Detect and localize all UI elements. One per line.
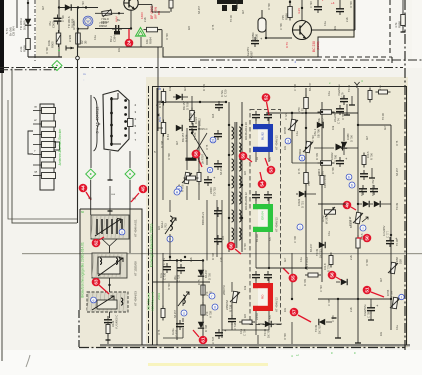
junction dots row: [162, 101, 227, 103]
svg-text:u-g: u-g: [132, 197, 136, 200]
wire x358 bottom: [355, 250, 361, 343]
svg-text:62: 62: [94, 240, 99, 246]
red test point 4-5: [131, 185, 147, 202]
svg-text:L 703: L 703: [164, 223, 168, 230]
svg-text:4n7: 4n7: [366, 135, 369, 140]
svg-text:b: b: [348, 175, 350, 179]
red voltage 4.2V: [285, 8, 301, 48]
svg-text:D 726: D 726: [185, 134, 189, 142]
dashed border top right vertical: [389, 0, 391, 55]
diode D751: [296, 191, 316, 208]
svg-text:0.1u: 0.1u: [296, 131, 299, 136]
dashed border top right horizontal: [285, 57, 392, 63]
wire fork symbol above panel: [354, 82, 359, 88]
green ground triangles: [136, 28, 146, 37]
svg-text:R 75: R 75: [396, 140, 399, 146]
capacitor C74: [333, 105, 344, 124]
svg-text:R70B: R70B: [283, 127, 287, 134]
paper bottom white: [0, 350, 422, 375]
wire x338 bottom: [335, 298, 341, 338]
shield frame green GR.04: [253, 204, 273, 232]
resistor small mid: [362, 151, 374, 168]
resistor R56 pot: [388, 257, 403, 274]
svg-text:0.7V: 0.7V: [285, 42, 289, 48]
svg-text:4n7: 4n7: [380, 277, 383, 282]
svg-text:4.2V: 4.2V: [297, 8, 301, 14]
tiny value labels texture top: [42, 1, 353, 54]
svg-text:R98.5: R98.5: [317, 168, 321, 176]
wire x391 low: [390, 205, 392, 330]
wire red frame out: [222, 282, 269, 330]
capacitor C337: [171, 320, 184, 337]
wire x222 tall: [221, 200, 223, 282]
module panel border: [80, 209, 142, 345]
module 1 label: [134, 219, 138, 237]
svg-text:C 723: C 723: [162, 258, 166, 265]
svg-text:24: 24: [127, 40, 132, 46]
svg-text:C 337: C 337: [175, 329, 179, 337]
svg-text:R 709: R 709: [315, 153, 319, 160]
svg-text:C 723: C 723: [284, 113, 288, 120]
red frame pin stubs: [255, 277, 272, 322]
svg-text:D 705: D 705: [208, 273, 212, 280]
green text column asym2: [157, 292, 161, 300]
resistor R887 right: [394, 0, 406, 32]
svg-text:TD 49: TD 49: [230, 15, 233, 22]
wire x217 vertical: [216, 200, 218, 257]
connector key tab: [54, 142, 60, 150]
resistor R82 vertical: [189, 96, 202, 126]
blue circle 3: [285, 138, 291, 144]
wire y299 right: [318, 298, 392, 300]
diode D901 on y7.5: [65, 4, 71, 10]
red test point 4-9: [343, 201, 356, 210]
wire x110 stub2: [108, 186, 113, 215]
wire x203 bottom: [202, 261, 204, 337]
svg-text:92148+R13 20: 92148+R13 20: [244, 122, 248, 140]
wire x163 vertical: [162, 102, 164, 200]
red test point 5-8 overlay: [192, 150, 201, 159]
svg-text:BA 157: BA 157: [396, 167, 399, 176]
variable coil L704: [178, 292, 189, 306]
svg-text:TD 49: TD 49: [382, 113, 385, 120]
wire y113 stub: [0, 0, 1, 1]
green diamond on separator: [52, 61, 62, 71]
svg-text:C 706: C 706: [62, 15, 65, 22]
svg-text:C 905: C 905: [68, 34, 72, 42]
junction dots network: [291, 111, 323, 164]
svg-text:2.2k: 2.2k: [190, 257, 193, 262]
blue circle bottom left: [209, 293, 215, 299]
svg-text:53: 53: [269, 167, 274, 173]
resistor R79 v: [320, 173, 327, 189]
svg-text:C 720: C 720: [224, 89, 228, 97]
tuner brace: [94, 97, 100, 151]
svg-text:D 708: D 708: [366, 259, 369, 266]
svg-text:C 706: C 706: [293, 84, 297, 91]
potentiometer R70B: [283, 119, 298, 134]
svg-text:11: 11: [211, 138, 215, 142]
svg-text:D 708: D 708: [168, 153, 171, 160]
svg-text:+4.5u: +4.5u: [255, 313, 259, 320]
svg-text:R 75: R 75: [158, 329, 161, 335]
wire x130 below diamond: [129, 180, 131, 253]
red test point 5-1: [363, 286, 384, 297]
resistor R735: [201, 282, 213, 298]
svg-text:AT 4046/12: AT 4046/12: [275, 297, 279, 312]
vertical label right of transformer: [244, 122, 248, 210]
row2 capacitor C726: [189, 123, 208, 140]
wire x322: [321, 102, 323, 190]
svg-text:D 708: D 708: [204, 325, 208, 332]
red test point 5-5: [283, 268, 297, 282]
resistor R705: [356, 233, 368, 251]
wire W16 connect: [77, 26, 88, 30]
potentiometer R753: [321, 207, 336, 224]
blue circle 11: [210, 137, 216, 143]
svg-text:R 75: R 75: [212, 24, 215, 30]
svg-text:0: 0: [214, 305, 216, 309]
diode labels TD180: [67, 16, 75, 28]
wire top rail2: [156, 88, 158, 345]
svg-text:C 706: C 706: [332, 167, 335, 174]
capacitor C785: [363, 299, 379, 320]
svg-text:a-: a-: [293, 60, 297, 63]
svg-text:C384: C384: [113, 35, 117, 42]
svg-text:R 700: R 700: [370, 153, 374, 160]
wire transistor base: [95, 12, 124, 14]
diode D741: [258, 321, 282, 338]
resistor R886: [281, 4, 292, 21]
svg-text:TD 49: TD 49: [314, 324, 318, 332]
svg-text:0.1u: 0.1u: [324, 21, 327, 26]
capacitor C883 left: [336, 0, 344, 15]
svg-text:R 709: R 709: [303, 279, 307, 286]
green tick top panel: [329, 79, 363, 85]
svg-text:0.1u: 0.1u: [300, 257, 303, 262]
green tiny dot: [58, 50, 60, 52]
svg-text:R886: R886: [285, 13, 289, 20]
svg-text:R 709: R 709: [158, 100, 162, 108]
green diamond node left: [86, 169, 96, 179]
diode D703: [341, 128, 354, 155]
svg-text:BA 157: BA 157: [308, 82, 312, 91]
variable inductor L703: [160, 216, 176, 234]
svg-text:4n7: 4n7: [242, 9, 245, 14]
svg-text:5.5: 5.5: [268, 237, 272, 241]
wire y257 horizontal: [0, 0, 1, 1]
svg-text:TD 49: TD 49: [395, 202, 399, 210]
svg-text:BA 157: BA 157: [174, 309, 177, 318]
svg-text:R884: R884: [149, 37, 153, 44]
svg-text:u-g: u-g: [88, 197, 92, 200]
filter cap red top: [252, 271, 272, 281]
svg-text:C 700: C 700: [243, 329, 247, 336]
row2 resistor R84: [161, 120, 170, 141]
svg-text:45: 45: [141, 186, 146, 192]
module box 1 (AT 4046 A/S1): [91, 215, 129, 239]
tiny value labels texture: [160, 82, 399, 330]
svg-text:R 84: R 84: [166, 134, 170, 140]
svg-text:C 785: C 785: [367, 311, 371, 318]
svg-text:D 708: D 708: [268, 3, 271, 10]
svg-text:52: 52: [264, 95, 269, 101]
svg-text:61: 61: [201, 337, 206, 343]
blue test point W16: [83, 16, 93, 26]
red test point 6-3: [92, 278, 109, 294]
module box 3 (AT 4044/S3): [87, 292, 128, 312]
svg-text:TD 725: TD 725: [213, 187, 217, 196]
resistor R707 small: [186, 153, 205, 164]
svg-text:C 723: C 723: [310, 1, 313, 8]
svg-text:TD 49: TD 49: [396, 239, 399, 246]
wire top bus segment: [157, 11, 170, 13]
svg-text:49: 49: [345, 202, 350, 208]
svg-text:AT 4046/12: AT 4046/12: [275, 135, 279, 150]
vertical label AT 4046/12 c: [275, 297, 279, 312]
svg-text:AT 4046/12: AT 4046/12: [275, 217, 279, 232]
svg-text:54: 54: [260, 181, 265, 187]
wire right of R884: [78, 30, 163, 47]
module 3 label: [134, 291, 138, 306]
svg-text:25001: 25001: [157, 292, 161, 300]
red test point 5-6: [328, 271, 341, 280]
wire y260 rail: [163, 259, 204, 261]
wire x91 below diamond: [90, 180, 92, 215]
svg-text:750: 750: [307, 181, 311, 186]
svg-text:60: 60: [229, 243, 234, 249]
wire x306 extend: [305, 200, 307, 268]
blue label B+ on wire: [158, 86, 162, 122]
coupling bracket: [28, 131, 33, 154]
wire x163 bottom: [162, 253, 164, 320]
svg-text:0: 0: [209, 168, 211, 172]
svg-text:59: 59: [241, 153, 246, 159]
svg-text:D 708: D 708: [160, 141, 164, 148]
diode D708b: [198, 322, 208, 332]
wire red frame out2: [255, 322, 257, 335]
smudge stroke bottom left: [26, 355, 30, 367]
red marks top right: [322, 0, 335, 5]
capacitor C738: [228, 315, 237, 330]
blue circle 11b: [176, 186, 182, 192]
wire x157 to lower section: [157, 47, 159, 131]
green vertical label sym: [147, 293, 151, 311]
svg-text:C 79: C 79: [341, 92, 345, 98]
svg-text:R905: R905: [51, 41, 55, 48]
red test point 5-2: [262, 93, 271, 115]
solid border top panel right: [163, 0, 354, 57]
tuner module outline: [103, 91, 133, 152]
svg-text:(1888): (1888): [316, 41, 320, 50]
svg-text:0.1u: 0.1u: [159, 272, 163, 278]
wire x232: [231, 282, 233, 330]
resistor below module3: [106, 315, 119, 337]
transistor T880 BF459: [124, 0, 138, 10]
svg-text:1k5: 1k5: [221, 235, 225, 240]
svg-text:R 75: R 75: [206, 144, 209, 150]
resistor network right low: [323, 253, 333, 273]
svg-text:Bildaufzeichnungsgeräte 29301-: Bildaufzeichnungsgeräte 29301-014.01: [81, 242, 85, 298]
wire tuner down x110: [108, 151, 113, 180]
dashed enclosure filter modules: [250, 110, 281, 325]
green vertical label Konvergenz: [150, 223, 154, 268]
small blue label: [293, 60, 297, 63]
svg-text:24507M: 24507M: [225, 300, 229, 310]
cream panel top section: [36, 0, 355, 58]
dash-dot border bottom-left vertical: [78, 310, 80, 347]
crossing wires: [191, 128, 208, 165]
svg-text:C 706: C 706: [332, 315, 335, 322]
blue circle A: [174, 189, 180, 195]
svg-text:D 708: D 708: [211, 253, 215, 260]
blue circle b: [346, 174, 352, 180]
blue circle j: [297, 224, 303, 230]
svg-text:R93 C+710: R93 C+710: [323, 174, 327, 188]
pin labels above module panel: [88, 193, 136, 200]
wire box2 to box3: [108, 278, 110, 292]
svg-text:270: 270: [205, 311, 209, 316]
wire x358 tall: [357, 88, 359, 299]
svg-text:60: 60: [81, 210, 85, 214]
svg-text:10k: 10k: [331, 125, 335, 130]
capacitor C74b: [344, 104, 350, 115]
svg-text:92148+R09 22: 92148+R09 22: [244, 192, 248, 210]
wire module bottom: [106, 334, 111, 344]
blue frame pin stubs: [255, 117, 272, 162]
green frame pin stubs: [255, 197, 272, 244]
svg-text:R999: R999: [23, 45, 27, 52]
svg-text:1k5: 1k5: [244, 170, 247, 175]
svg-text:0.22u: 0.22u: [171, 328, 175, 335]
svg-text:3: 3: [287, 139, 289, 143]
cream panel main section: [146, 77, 408, 348]
connector pin labels: [34, 105, 38, 174]
electrolytic capacitor C880: [251, 10, 266, 42]
label column far left: [5, 26, 16, 36]
svg-text:4n7: 4n7: [176, 140, 179, 145]
svg-text:R 75: R 75: [297, 168, 301, 174]
module 2 label: [134, 261, 138, 276]
svg-text:R58: R58: [395, 257, 399, 262]
module box 2 (AT 1025/08): [92, 253, 127, 278]
shield frame red RO.30: [253, 283, 273, 311]
wire y204: [318, 203, 359, 205]
svg-text:DX 705: DX 705: [267, 329, 271, 338]
junction dots y257: [169, 256, 186, 258]
wire under green frame: [256, 244, 269, 268]
svg-text:BL.82: BL.82: [261, 132, 265, 140]
svg-text:e: e: [92, 298, 94, 302]
resistor R75 top: [297, 95, 308, 115]
svg-text:BA 157: BA 157: [220, 166, 223, 175]
svg-text:5.5: 5.5: [268, 315, 272, 319]
red test point 4-4: [79, 184, 91, 200]
blue circle b2: [349, 182, 355, 188]
diode D706: [313, 122, 323, 138]
blue circle s: [181, 310, 187, 316]
ecap C725: [204, 175, 217, 196]
svg-text:Bu: Bu: [117, 18, 121, 22]
svg-text:BA 157: BA 157: [309, 243, 313, 252]
svg-text:GR.04: GR.04: [261, 211, 265, 220]
cream panel left module section: [80, 209, 142, 348]
svg-text:s: s: [183, 311, 185, 315]
svg-text:270: 270: [205, 291, 209, 296]
svg-text:1k5: 1k5: [244, 313, 247, 318]
svg-text:BZ+3u: BZ+3u: [255, 234, 259, 242]
black scan edge top-left: [0, 0, 4, 73]
red test point 6-1: [193, 330, 207, 344]
red test point 5-5 overlay: [289, 274, 298, 283]
svg-text:BZW-66 21: BZW-66 21: [201, 211, 205, 225]
blue circle 6: [299, 155, 305, 161]
red type label BC238: [312, 41, 320, 52]
svg-text:2400/: 2400/: [209, 187, 213, 194]
wire bottom mid verticals: [258, 322, 292, 344]
resistor R76 h: [317, 110, 335, 126]
resistor R903 vertical: [19, 36, 30, 53]
svg-text:R 709: R 709: [244, 243, 247, 250]
faint horizontal scan line mid: [22, 253, 422, 254]
wire x222 label: [222, 286, 226, 295]
red leader test 2-4: [128, 29, 130, 39]
small cluster above y200: [184, 176, 199, 180]
svg-text:1k5: 1k5: [211, 113, 215, 118]
svg-text:C 706: C 706: [280, 23, 283, 30]
module converge wires: [102, 239, 117, 253]
svg-text:b: b: [351, 183, 353, 187]
filter cap green top: [252, 191, 272, 201]
svg-text:R 75: R 75: [301, 108, 305, 114]
red leader 5-8: [198, 158, 202, 167]
svg-text:10k: 10k: [168, 86, 172, 91]
svg-text:AT 4046 A/S1: AT 4046 A/S1: [134, 219, 138, 237]
wire x177 bottom: [176, 261, 178, 341]
svg-text:C 706: C 706: [158, 113, 161, 120]
red voltage label 150V: [140, 12, 144, 19]
paper tint mid band: [0, 68, 422, 350]
svg-text:D 708: D 708: [342, 113, 345, 120]
arrow symbol: [66, 46, 74, 51]
wire x322 low: [321, 190, 323, 282]
red label AAV: [115, 16, 119, 22]
svg-text:IC 1895: IC 1895: [72, 20, 76, 30]
filter cap blue top: [252, 111, 272, 121]
svg-text:AT 1025/08: AT 1025/08: [134, 261, 138, 276]
svg-text:0.1u: 0.1u: [239, 328, 243, 334]
wire x292 bottom: [291, 253, 293, 300]
wire y148: [314, 147, 358, 149]
blue tiny marks below separator: [83, 72, 86, 82]
svg-text:DX 999: DX 999: [23, 20, 27, 30]
svg-text:H 738: H 738: [209, 311, 213, 318]
svg-text:D 700: D 700: [350, 135, 354, 142]
capacitor C730: [159, 263, 171, 280]
svg-text:1k5: 1k5: [188, 25, 191, 30]
svg-text:0.1u: 0.1u: [94, 35, 97, 40]
potentiometer R755: [386, 289, 400, 309]
svg-text:6: 6: [301, 156, 303, 160]
wire x59 vertical: [58, 0, 60, 57]
svg-text:10022: 10022: [330, 152, 334, 160]
svg-text:R 709: R 709: [202, 84, 206, 91]
blue circle module3: [91, 297, 97, 303]
wire mid horizontal y128: [157, 127, 163, 129]
svg-text:TD 49: TD 49: [315, 248, 319, 256]
svg-text:2k R707: 2k R707: [201, 153, 205, 164]
svg-text:55: 55: [291, 275, 296, 281]
